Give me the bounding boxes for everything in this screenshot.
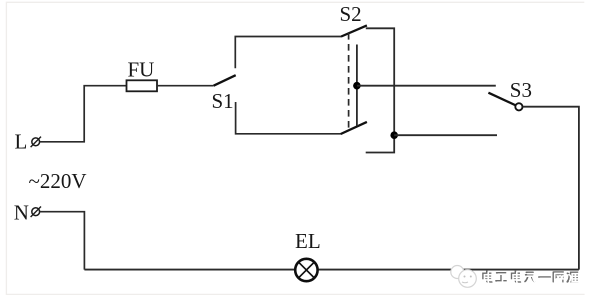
lamp EL bbox=[295, 229, 321, 281]
wire S2 top throw to right vertical and lower stub bbox=[366, 28, 395, 152]
svg-text:S1: S1 bbox=[212, 89, 234, 113]
terminal N bbox=[14, 200, 41, 224]
wire S1 lower contact and bottom rail to S2 bbox=[236, 102, 341, 134]
svg-text:N: N bbox=[14, 200, 29, 224]
svg-text:FU: FU bbox=[128, 58, 155, 82]
switch S2 bbox=[340, 2, 367, 134]
wire bottom rail bbox=[84, 269, 579, 271]
watermark logo bbox=[451, 266, 477, 288]
wire L terminal to fuse bbox=[40, 86, 127, 142]
switch S1 bbox=[212, 75, 236, 113]
wire fuse to S1 bbox=[157, 85, 214, 87]
svg-text:L: L bbox=[15, 130, 28, 154]
fuse FU bbox=[127, 58, 158, 92]
wire N terminal down to bottom rail bbox=[40, 212, 85, 270]
wire middle horizontal to S3 upper contact bbox=[357, 85, 496, 87]
switch S3 bbox=[488, 78, 532, 111]
svg-text:S2: S2 bbox=[340, 2, 362, 26]
wire S3 common to right side down bbox=[523, 107, 579, 270]
watermark text bbox=[483, 271, 579, 284]
svg-text:~220V: ~220V bbox=[29, 169, 87, 193]
wire S2 middle vertical bbox=[356, 45, 358, 126]
wire S1 upper contact and top rail to S2 bbox=[235, 37, 341, 69]
junction node at S2 middle bbox=[353, 82, 361, 90]
junction node at S2 right bbox=[390, 131, 398, 139]
svg-text:EL: EL bbox=[295, 229, 321, 253]
wire lower horizontal to S3 lower contact bbox=[394, 134, 497, 136]
svg-text:S3: S3 bbox=[510, 78, 532, 102]
terminal L bbox=[15, 130, 42, 154]
